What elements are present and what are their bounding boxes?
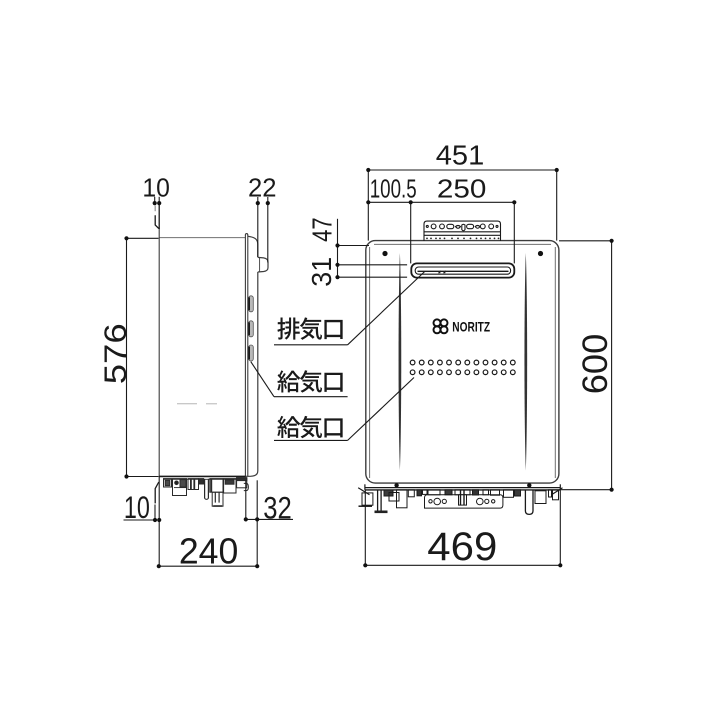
- side view: unit body outline: [159, 228, 248, 477]
- svg-text:600: 600: [576, 334, 615, 395]
- dimension 469 (base width): [363, 490, 562, 567]
- dimension 576 (side height): [124, 236, 158, 478]
- dimension 240 (overall depth): [157, 564, 260, 568]
- dimension 600 (front height): [559, 239, 614, 492]
- svg-text:22: 22: [248, 173, 277, 203]
- dimension 47 and 31 (slot vertical position): [335, 219, 407, 280]
- front view: panel crease lines: [399, 253, 402, 471]
- svg-text:47: 47: [307, 217, 338, 242]
- svg-text:451: 451: [436, 139, 485, 170]
- leader line haikiko: [274, 272, 425, 345]
- svg-text:10: 10: [124, 489, 150, 525]
- side view: wall-mount hook bracket top: [155, 205, 159, 229]
- dimension 10 (top, bracket offset): [153, 197, 162, 205]
- svg-text:576: 576: [97, 323, 133, 384]
- svg-text:469: 469: [427, 525, 497, 569]
- front view: NORITZ logo: [434, 319, 448, 333]
- dimension 22 (exhaust bump depth): [256, 197, 270, 263]
- leader line kyukiko 1: [251, 362, 348, 397]
- dimension 32 (cover depth at bottom): [244, 480, 293, 566]
- leader line kyukiko 2: [274, 378, 414, 441]
- label kyukiko 2 (air intake, front holes): [277, 416, 342, 438]
- svg-text:250: 250: [437, 175, 487, 203]
- side view: air intake slits (3) on cover side: [249, 296, 254, 361]
- dimension 10 (bottom, bracket below): [124, 477, 162, 567]
- label kyukiko 1 (air intake, side slits): [277, 370, 342, 392]
- side view: faint panel smudge marks: [177, 403, 217, 405]
- dimension 100.5 and 250 (slot position): [366, 200, 516, 263]
- side view: bottom piping and valve cluster: [163, 478, 248, 507]
- side view: front cover face with exhaust bump: [245, 236, 268, 476]
- side view: wall-mount hook bracket bottom: [155, 482, 159, 503]
- front view: top screws: [382, 251, 543, 256]
- front view: air intake hole rows (kyukiko): [410, 360, 515, 375]
- front view: bottom piping and valves: [359, 490, 559, 515]
- front view: base plate: [358, 483, 562, 495]
- svg-text:240: 240: [179, 530, 239, 571]
- front view: wall-mount bracket bar with holes: [424, 221, 501, 241]
- label haikiko (exhaust port): [277, 317, 342, 339]
- svg-text:NORITZ: NORITZ: [452, 320, 490, 335]
- svg-text:31: 31: [306, 257, 337, 287]
- dimension 451 (top overall width): [366, 168, 559, 241]
- svg-text:32: 32: [263, 490, 292, 526]
- svg-text:10: 10: [142, 173, 170, 203]
- front view: exhaust slot (haikiko): [411, 263, 514, 277]
- front view: unit body outline: [366, 241, 559, 484]
- svg-text:100.5: 100.5: [370, 175, 417, 203]
